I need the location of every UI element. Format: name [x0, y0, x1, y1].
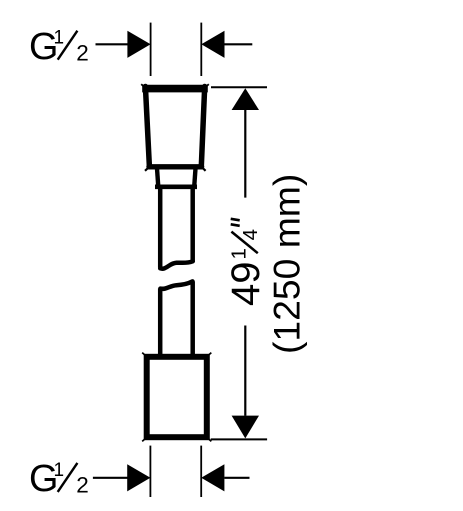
hose tube upper: left wall: [158, 188, 163, 268]
svg-text:2: 2: [76, 40, 89, 65]
corner whisker top-left of cylindrical nut: [142, 353, 147, 357]
hose neck: left side: [157, 169, 158, 187]
arrowhead right-pointing (top left): [127, 31, 150, 58]
hose neck: bottom bar: [155, 185, 197, 190]
extension line (bottom left): [149, 446, 151, 497]
hose top conical nut: left side: [145, 87, 149, 167]
svg-text:49: 49: [224, 262, 268, 307]
arrowhead left-pointing (top right): [201, 31, 224, 58]
label 49 1/4 inch (rotated): [224, 219, 268, 306]
svg-text:4: 4: [239, 229, 262, 240]
corner whisker bottom-left of cylindrical nut: [142, 437, 147, 441]
extension line (top right): [200, 23, 202, 76]
svg-text:1: 1: [54, 460, 65, 481]
corner whisker top-right of conical nut: [205, 84, 209, 87]
dimension line left (top G1/2): [96, 43, 130, 45]
hose top conical nut: right side: [201, 87, 204, 167]
corner whisker bottom-right of cylindrical nut: [207, 437, 212, 441]
svg-text:1: 1: [228, 248, 251, 259]
label G1/2 (top): [29, 26, 89, 68]
hose top conical nut: bottom bar: [149, 164, 202, 169]
hose tube lower: break wave: [160, 281, 192, 288]
dimension line right (top G1/2): [225, 43, 253, 45]
dimension line right (bottom G1/2): [224, 477, 249, 479]
label G1/2 (bottom): [29, 458, 89, 500]
svg-text:1: 1: [54, 28, 65, 49]
hose tube upper: break wave: [160, 261, 193, 268]
extension line (length, bottom): [211, 438, 267, 440]
extension line (length, top): [211, 86, 267, 88]
extension line (top left): [150, 23, 152, 76]
hose bottom cylindrical nut: [147, 357, 207, 437]
arrowhead right-pointing (bottom left): [127, 464, 150, 491]
length dimension line lower: [244, 326, 246, 416]
extension line (bottom right): [200, 446, 202, 497]
length dimension line upper: [244, 108, 246, 198]
dimension line left (bottom G1/2): [93, 477, 129, 479]
arrowhead down (length): [232, 416, 259, 439]
svg-text:2: 2: [76, 473, 89, 498]
hose tube upper: right wall: [190, 188, 195, 262]
corner whisker top-left of conical nut: [141, 84, 145, 87]
arrowhead up (length): [232, 88, 259, 110]
hose tube lower: right wall: [190, 282, 195, 357]
svg-text:(1250 mm): (1250 mm): [266, 174, 308, 354]
corner whisker top-right of cylindrical nut: [207, 353, 212, 357]
corner whisker bottom-right of conical nut: [202, 168, 206, 171]
hose neck: right side: [194, 169, 195, 187]
corner whisker bottom-left of conical nut: [145, 168, 149, 171]
arrowhead left-pointing (bottom right): [201, 464, 224, 491]
hose tube lower: left wall: [158, 289, 163, 357]
hose top conical nut: top bar: [142, 85, 208, 93]
